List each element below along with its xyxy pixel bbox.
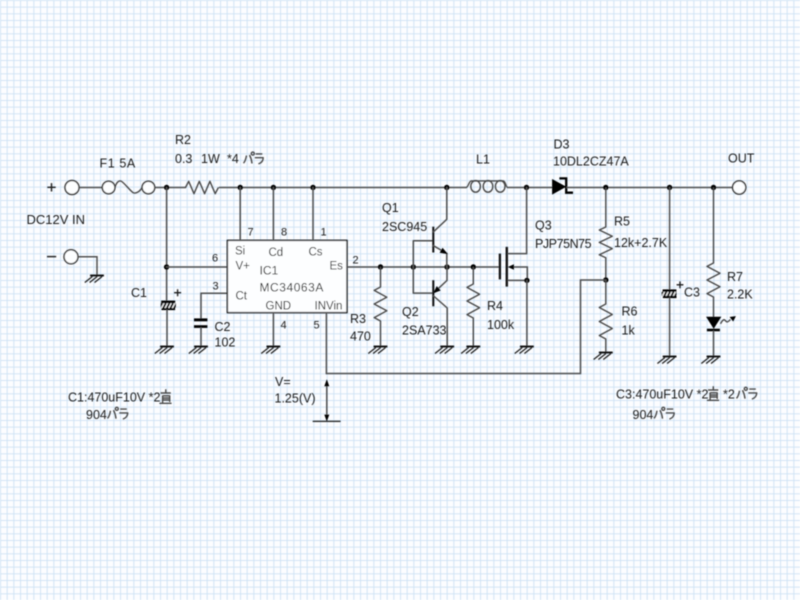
inductor L1 bbox=[466, 181, 507, 193]
node pin8 top bbox=[271, 185, 276, 190]
wire VIN column down bbox=[166, 188, 168, 301]
svg-text:1: 1 bbox=[321, 227, 327, 239]
transistor Q1 2SC945 bbox=[433, 188, 447, 268]
capacitor C2 bbox=[194, 318, 207, 321]
svg-text:6: 6 bbox=[212, 253, 218, 265]
svg-text:R4: R4 bbox=[487, 299, 503, 313]
LED indicator bbox=[707, 316, 736, 331]
svg-text:7: 7 bbox=[248, 227, 254, 239]
wire Q3 source to ground bbox=[526, 280, 528, 346]
svg-text:L1: L1 bbox=[476, 153, 490, 167]
node emitters bbox=[444, 264, 449, 269]
ground (Q2) bbox=[435, 347, 454, 354]
ground (R6) bbox=[594, 353, 613, 360]
node Q1 collector top bbox=[444, 185, 449, 190]
label + (C1) bbox=[174, 289, 181, 296]
svg-text:MC34063A: MC34063A bbox=[260, 281, 324, 295]
svg-text:IC1: IC1 bbox=[260, 264, 279, 278]
svg-text:R2: R2 bbox=[175, 133, 191, 147]
svg-text:R3: R3 bbox=[350, 312, 366, 326]
svg-text:V+: V+ bbox=[236, 261, 251, 273]
node R5 top bbox=[603, 185, 608, 190]
glyph ra (katakana) bbox=[255, 154, 263, 164]
wire IN- to ground bbox=[78, 257, 97, 276]
wire feedback to INVin bbox=[326, 280, 605, 374]
svg-text:12k+2.7K: 12k+2.7K bbox=[614, 236, 668, 250]
svg-text:470: 470 bbox=[350, 330, 371, 344]
svg-text:Q3: Q3 bbox=[535, 219, 552, 233]
pin 4 wire bbox=[272, 313, 274, 347]
transistor Q3 PJP75N75 (MOSFET) bbox=[500, 188, 527, 287]
svg-text:Cd: Cd bbox=[269, 247, 284, 259]
ground (C1) bbox=[155, 347, 174, 354]
svg-text:Q1: Q1 bbox=[382, 201, 399, 215]
node C3 top bbox=[667, 185, 672, 190]
svg-text:V=: V= bbox=[275, 375, 291, 389]
svg-text:1W: 1W bbox=[201, 152, 220, 166]
node pin7 top bbox=[238, 185, 243, 190]
glyph pa (right top) bbox=[737, 387, 748, 398]
wire IN+ to fuse bbox=[79, 187, 102, 189]
svg-text:C3: C3 bbox=[684, 286, 700, 300]
node R4 top bbox=[471, 264, 476, 269]
svg-text:1.25(V): 1.25(V) bbox=[275, 392, 316, 406]
wire base tie vertical bbox=[413, 241, 433, 293]
pin 5 wire bbox=[325, 313, 327, 374]
pin 8 wire bbox=[272, 188, 274, 241]
svg-text:2SA733: 2SA733 bbox=[402, 324, 447, 338]
label + (plus input) bbox=[47, 183, 55, 191]
svg-text:5: 5 bbox=[314, 320, 320, 332]
svg-text:R6: R6 bbox=[622, 305, 638, 319]
terminal IN+ bbox=[65, 181, 79, 195]
svg-text:F1 5A: F1 5A bbox=[100, 157, 136, 171]
terminal OUT bbox=[733, 181, 746, 194]
fuse F1 bbox=[102, 181, 115, 194]
svg-text:DC12V IN: DC12V IN bbox=[27, 212, 86, 227]
svg-text:100k: 100k bbox=[487, 318, 515, 332]
svg-text:2.2K: 2.2K bbox=[727, 288, 753, 302]
svg-text:4: 4 bbox=[281, 320, 287, 332]
node base tie bbox=[411, 264, 416, 269]
resistor R4 bbox=[467, 267, 480, 347]
svg-text:2: 2 bbox=[353, 255, 359, 267]
glyph ra (left note) bbox=[119, 409, 127, 419]
glyph pa (left note) bbox=[108, 407, 119, 418]
svg-text:INVin: INVin bbox=[315, 301, 343, 313]
diode D3 (schottky) bbox=[553, 180, 566, 194]
ground (LED) bbox=[701, 357, 720, 364]
transistor Q2 2SA733 bbox=[433, 267, 447, 347]
svg-text:Ct: Ct bbox=[236, 291, 248, 303]
ground (R3) bbox=[368, 347, 387, 354]
svg-text:OUT: OUT bbox=[728, 152, 755, 166]
ground (R4) bbox=[461, 347, 480, 354]
node pin1 top bbox=[310, 185, 315, 190]
node Q3 source bbox=[524, 278, 529, 283]
svg-text:D3: D3 bbox=[554, 138, 570, 152]
svg-text:C1: C1 bbox=[131, 286, 147, 300]
svg-text:10DL2CZ47A: 10DL2CZ47A bbox=[553, 155, 629, 169]
svg-text:1k: 1k bbox=[622, 324, 636, 338]
ground (IC pin4) bbox=[261, 347, 280, 354]
wire LED to ground bbox=[713, 331, 715, 356]
svg-text:Es: Es bbox=[330, 261, 344, 273]
wire C2 to ground bbox=[200, 328, 202, 347]
wire fuse to R2 bbox=[155, 187, 186, 189]
node feedback divider bbox=[603, 277, 608, 282]
wire C1 to ground bbox=[166, 310, 168, 346]
wire Ct branch bbox=[201, 293, 227, 318]
ground (C2) bbox=[189, 347, 208, 354]
glyph choku (kanji) right bbox=[707, 386, 719, 400]
ground (Q3) bbox=[515, 347, 534, 354]
svg-text:PJP75N75: PJP75N75 bbox=[535, 237, 592, 251]
svg-text:GND: GND bbox=[266, 301, 292, 313]
glyph choku (kanji) left bbox=[159, 389, 171, 403]
node switch (L1/Q3/D3) bbox=[524, 185, 529, 190]
svg-text:2SC945: 2SC945 bbox=[382, 220, 427, 234]
capacitor C3 (polarized) bbox=[669, 188, 671, 290]
node junction VIN column bbox=[164, 185, 169, 190]
terminal IN- bbox=[64, 250, 78, 264]
wire C3 to ground bbox=[669, 298, 671, 356]
annotation double arrow bbox=[313, 379, 341, 421]
resistor R2 bbox=[186, 181, 219, 193]
svg-text:R7: R7 bbox=[727, 270, 743, 284]
svg-text:C2: C2 bbox=[215, 320, 231, 334]
svg-text:3: 3 bbox=[213, 281, 219, 293]
label + (C3) bbox=[677, 281, 684, 288]
svg-text:*2: *2 bbox=[723, 388, 735, 402]
wire Es bus bbox=[347, 266, 499, 268]
resistor R5 bbox=[599, 188, 612, 281]
svg-text:904: 904 bbox=[633, 408, 654, 422]
glyph ra (right top) bbox=[748, 389, 756, 399]
resistor R6 bbox=[599, 280, 612, 353]
svg-text:8: 8 bbox=[281, 227, 287, 239]
svg-text:904: 904 bbox=[86, 408, 107, 422]
wire L1 to D3 bbox=[508, 187, 553, 189]
resistor R3 bbox=[374, 267, 387, 347]
svg-text:102: 102 bbox=[215, 336, 236, 350]
ground (C3) bbox=[657, 357, 676, 364]
op IC1 MC34063A box bbox=[227, 240, 347, 312]
svg-text:Cs: Cs bbox=[309, 247, 323, 259]
label - (minus input) bbox=[47, 256, 56, 258]
svg-text:0.3: 0.3 bbox=[175, 152, 192, 166]
glyph pa (katakana) bbox=[244, 152, 255, 163]
node R7 top bbox=[711, 185, 716, 190]
wire D3 to OUT bbox=[567, 187, 733, 189]
capacitor C1 (polarized) bbox=[161, 301, 175, 304]
node R3 top bbox=[378, 264, 383, 269]
svg-text:Q2: Q2 bbox=[402, 305, 419, 319]
svg-text:*4: *4 bbox=[227, 152, 239, 166]
node V+ branch bbox=[164, 264, 169, 269]
glyph pa (right bottom) bbox=[654, 407, 665, 418]
pin 7 wire bbox=[239, 188, 241, 241]
svg-text:Si: Si bbox=[235, 246, 245, 258]
glyph ra (right bottom) bbox=[666, 409, 674, 419]
ground (input minus) bbox=[85, 276, 104, 283]
wire V+ to IC pin6 bbox=[167, 266, 228, 268]
svg-text:C1:470uF10V *2: C1:470uF10V *2 bbox=[68, 391, 160, 405]
svg-text:R5: R5 bbox=[614, 215, 630, 229]
wire R2 to L1 bbox=[219, 187, 466, 189]
pin 1 wire bbox=[312, 188, 314, 241]
svg-text:C3:470uF10V *2: C3:470uF10V *2 bbox=[616, 388, 708, 402]
resistor R7 bbox=[707, 188, 720, 318]
